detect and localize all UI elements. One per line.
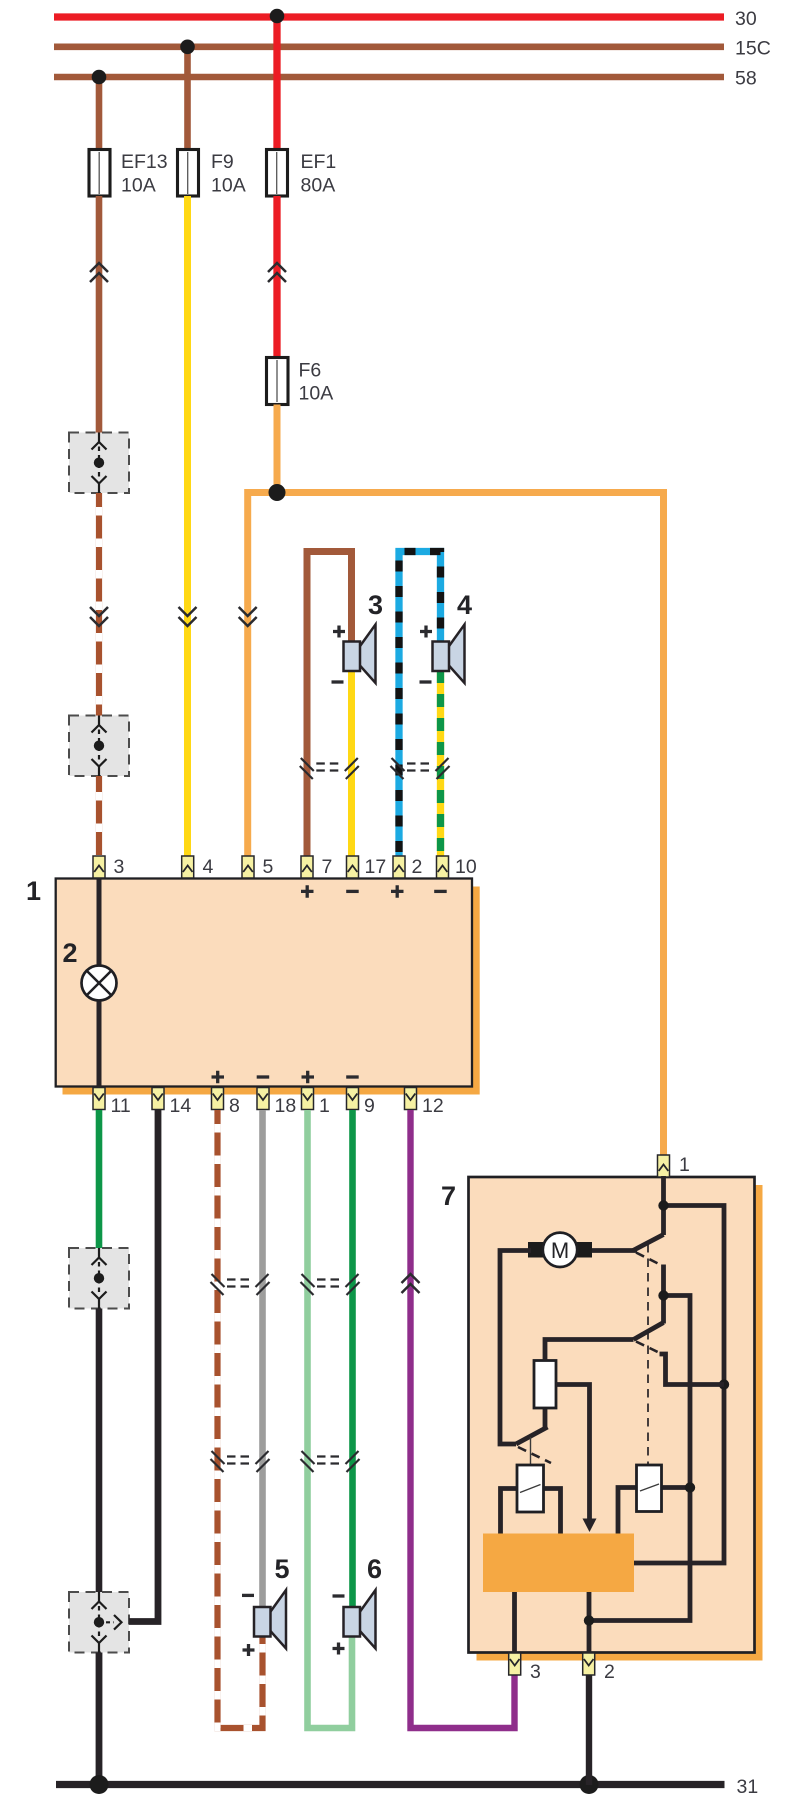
junction node on 15C [180,40,195,55]
wire fuse EF1 to fuse F6 red [273,196,280,358]
svg-text:10A: 10A [299,383,334,405]
svg-text:17: 17 [365,856,387,878]
wire node A to right rail [634,1206,724,1564]
svg-text:30: 30 [735,8,757,30]
relay K2 bracket wires [618,1488,690,1534]
wire brown/white striped X2 to pin 3 [96,776,102,857]
fuse EF13 10A [89,150,110,197]
pin 4 [182,856,194,878]
fuse F9 10A [178,150,199,197]
polarity plus pin 2 [391,885,404,898]
wire node C to down rail [589,1296,690,1621]
polarity minus pin 18 [257,1075,270,1078]
connector box X2 [69,716,129,777]
harness break mark rear right lower [301,1451,360,1472]
node E [584,1615,594,1625]
wire pin 14 black to X4 [129,1110,158,1622]
polarity minus pin 10 [434,890,447,893]
svg-text:58: 58 [735,68,757,90]
plus mark speaker 3 [333,626,345,638]
switch S3 released position dashed [518,1447,551,1463]
svg-text:5: 5 [275,1554,290,1584]
harness break mark rear left upper [211,1274,270,1295]
wire fuse F9 to pin 4 yellow [184,196,191,857]
pin 9 [347,1088,359,1110]
wire speaker 3 minus to pin 17, yellow [348,670,355,857]
pin 12 [405,1088,417,1110]
speaker 6 [344,1590,376,1649]
wire pin 8 striped to speaker 5 plus [218,1110,263,1728]
pin 18 [257,1088,269,1110]
harness break mark front speakers left [300,758,359,779]
flow arrows on brown wire [90,263,108,282]
switch S2 released position dashed [636,1342,664,1356]
radio unit 1 body [56,879,472,1087]
svg-text:4: 4 [457,590,472,620]
flow arrows on red wire [268,263,286,282]
svg-text:6: 6 [367,1554,382,1584]
minus mark speaker 4 [420,680,432,683]
wire pin 9 green to speaker 6 minus [349,1110,356,1607]
pin 8 [212,1088,224,1110]
wire 30 to fuse EF1 [273,17,280,150]
node C [658,1290,668,1300]
wire fuse EF13 to connector X1 brown [96,196,103,433]
wire orange branch to unit 7 pin 1 [277,493,664,1157]
plus mark speaker 4 [420,626,432,638]
mechanical link dashed [647,1244,649,1465]
polarity plus pin 8 [212,1071,225,1084]
polarity plus pin 7 [301,885,314,898]
svg-text:9: 9 [364,1095,375,1117]
wire X4 to ground bus [96,1653,103,1786]
flow arrows on yellow wire [179,607,197,626]
svg-text:EF13: EF13 [121,151,168,173]
wire pin 18 gray to speaker 5 minus [259,1110,266,1607]
svg-text:7: 7 [441,1181,456,1211]
pin 2 unit 7 [583,1653,595,1675]
resistor R [534,1361,556,1409]
junction node orange [269,484,286,501]
wire X3 to X4 black [96,1309,103,1593]
wire unit 7 pin 2 to ground [586,1674,592,1786]
connector box X1 [69,433,129,494]
antenna unit 7 body [469,1177,755,1653]
antenna unit 7 shadow [477,1185,763,1661]
svg-text:2: 2 [412,856,423,878]
svg-text:10: 10 [455,856,477,878]
wire resistor bottom stub [543,1408,548,1428]
svg-text:3: 3 [368,590,383,620]
control unit [483,1534,634,1593]
plus mark speaker 6 [333,1643,345,1655]
pin 5 [242,856,254,878]
relay K2 [637,1465,662,1512]
wire S1 to motor [580,1248,637,1253]
wire lamp vertical black [97,879,102,1089]
pin 14 [152,1088,164,1110]
svg-text:14: 14 [170,1095,192,1117]
node D [685,1482,695,1492]
svg-text:10A: 10A [121,175,156,197]
flow arrows on purple wire [402,1274,420,1293]
junction node on 58 [92,70,107,85]
pin 2 [393,856,405,878]
svg-text:8: 8 [229,1095,240,1117]
minus mark speaker 5 [242,1594,254,1597]
svg-text:5: 5 [263,856,274,878]
svg-text:15C: 15C [735,38,771,60]
harness break mark front speakers right [391,758,450,779]
fuse F6 10A [267,358,289,405]
wire 58 to fuse EF13 [96,77,103,150]
svg-text:2: 2 [604,1661,615,1683]
junction node on 30 [270,9,285,24]
plus mark speaker 5 [243,1644,255,1656]
switch S1 blade [633,1235,664,1251]
svg-text:F9: F9 [211,151,234,173]
arrowhead into control unit [583,1519,597,1533]
motor M [528,1233,592,1267]
switch S3 blade [516,1427,548,1444]
svg-text:M: M [551,1238,569,1263]
speaker 3 [344,625,376,684]
wire pin 12 purple to unit 7 pin 3 [411,1110,515,1728]
speaker 5 [254,1590,286,1649]
junction node ground right [580,1775,599,1794]
node B [719,1379,729,1389]
wire speaker 4 minus to pin 10, yellow/green [437,670,444,857]
flow arrows on striped wire [90,607,108,626]
minus mark speaker 6 [333,1594,345,1597]
pin 3 [93,856,105,878]
pin 7 [301,856,313,878]
switch S2 contact bar [661,1265,666,1324]
pin 1 [302,1088,314,1110]
wire brown/white striped X1 to X2 [96,493,102,716]
svg-text:EF1: EF1 [301,151,337,173]
switch S1 released position dashed [636,1253,658,1264]
svg-text:2: 2 [63,938,78,968]
junction node ground left [90,1775,109,1794]
wire resistor tap to control unit [556,1385,590,1522]
polarity minus pin 9 [346,1075,359,1078]
radio unit 1 shadow [63,887,480,1095]
svg-text:10A: 10A [211,175,246,197]
wire orange branch to pin 5 [248,493,277,858]
node A [658,1200,668,1210]
svg-text:80A: 80A [301,175,336,197]
bus 15C [54,43,724,50]
polarity plus pin 1 [302,1071,315,1084]
link S3 to relay K1 [530,1437,532,1465]
svg-text:7: 7 [322,856,333,878]
svg-text:12: 12 [422,1095,444,1117]
flow arrows on orange wire [239,607,257,626]
svg-text:4: 4 [203,856,214,878]
connector box X4 [69,1592,129,1653]
relay K1 [517,1465,544,1512]
wire control unit to pin 3 [512,1592,517,1654]
wire motor to S3 [500,1251,531,1445]
pin 10 [437,856,449,878]
harness break mark rear left lower [211,1451,270,1472]
svg-text:1: 1 [319,1095,330,1117]
wire pin 11 green [96,1110,103,1249]
svg-text:3: 3 [530,1661,541,1683]
minus mark speaker 3 [332,680,344,683]
NC contact stub to node B [660,1354,725,1385]
bus 30 [54,13,724,20]
side arrow in X4 [106,1615,122,1630]
relay K1 bracket wires [501,1489,561,1534]
wire pin 1 internal [661,1176,666,1235]
svg-text:F6: F6 [299,360,322,382]
harness break mark rear right upper [301,1274,360,1295]
svg-text:3: 3 [114,856,125,878]
bus 58 [54,74,724,81]
wire pin 7 to speaker 3 plus, brown loop [307,552,352,858]
wire control unit to pin 2 [587,1592,592,1654]
svg-text:31: 31 [737,1776,759,1797]
svg-text:1: 1 [679,1154,690,1176]
svg-text:11: 11 [111,1095,131,1117]
wire pin 2 to speaker 4 plus, blue/black loop [399,552,441,858]
lamp 2 symbol [82,966,117,1001]
svg-text:1: 1 [26,876,41,906]
connector box X3 [69,1248,129,1309]
wire fuse F6 to junction orange [274,405,281,493]
svg-text:18: 18 [275,1095,297,1117]
pin 1 unit 7 [658,1155,670,1177]
wire resistor top to S2 [545,1340,634,1361]
pin 17 [347,856,359,878]
fuse EF1 80A [267,150,288,197]
pin 3 unit 7 [509,1653,521,1675]
switch S2 blade [634,1323,664,1340]
polarity minus pin 17 [346,890,359,893]
pin 11 [93,1088,105,1110]
wire pin 1 light green to speaker 6 plus [308,1110,353,1728]
wire 15C to fuse F9 [184,47,191,150]
speaker 4 [433,625,465,684]
ground bus 31 [56,1781,725,1788]
